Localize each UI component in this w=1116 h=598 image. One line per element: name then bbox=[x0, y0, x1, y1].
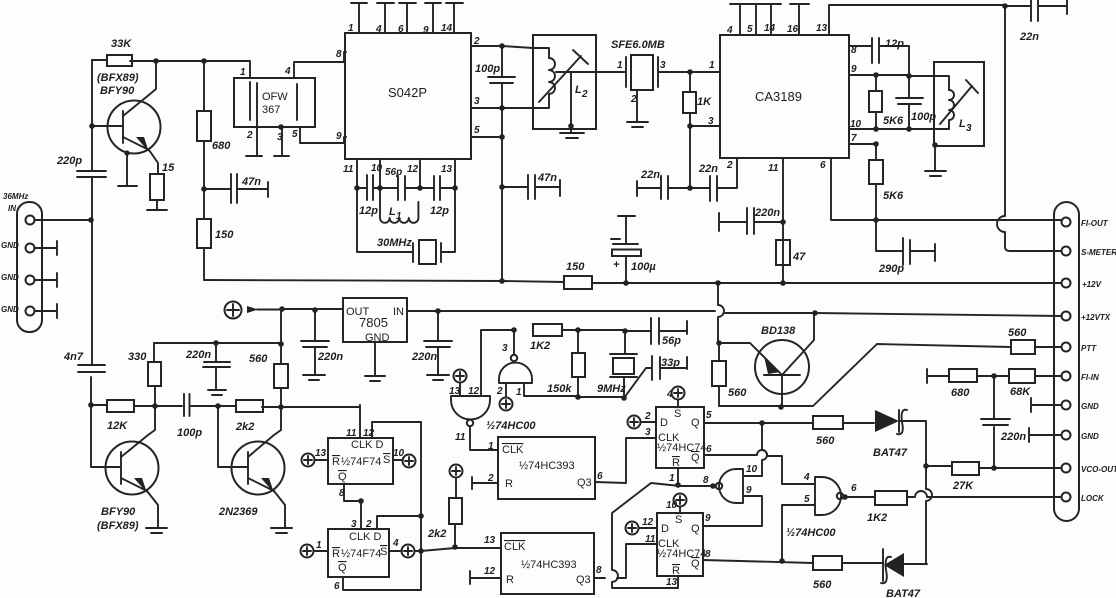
R pin12 stub bbox=[470, 571, 501, 584]
svg-text:680: 680 bbox=[212, 140, 231, 152]
svg-text:VCO-OUT: VCO-OUT bbox=[1081, 465, 1116, 474]
svg-text:100µ: 100µ bbox=[631, 261, 656, 273]
svg-text:16: 16 bbox=[787, 24, 799, 35]
svg-text:12: 12 bbox=[484, 566, 496, 577]
wire x690 down bbox=[689, 126, 691, 188]
svg-text:11: 11 bbox=[768, 163, 779, 174]
ground Q2 bbox=[146, 528, 167, 533]
svg-text:2: 2 bbox=[487, 473, 494, 484]
svg-text:3: 3 bbox=[502, 343, 508, 354]
svg-text:3: 3 bbox=[277, 132, 283, 143]
pin8 Qbar wire bbox=[703, 560, 813, 563]
svg-text:13: 13 bbox=[666, 577, 678, 588]
node top rail bbox=[1002, 3, 1008, 9]
svg-text:150: 150 bbox=[566, 261, 585, 273]
svg-text:47n: 47n bbox=[241, 176, 261, 188]
svg-text:FI-IN: FI-IN bbox=[1081, 373, 1099, 382]
wire pin12 up to 1K2 rail bbox=[481, 330, 514, 396]
svg-text:6: 6 bbox=[334, 581, 340, 592]
svg-text:L: L bbox=[575, 84, 582, 96]
resistor 560 bbox=[712, 343, 747, 406]
svg-text:36MHz: 36MHz bbox=[3, 192, 28, 201]
svg-text:½74HC00: ½74HC00 bbox=[486, 420, 536, 432]
wire base line to PTT diagonal bbox=[719, 344, 1011, 406]
svg-text:4: 4 bbox=[726, 25, 733, 36]
svg-text:(BFX89): (BFX89) bbox=[97, 520, 139, 532]
pin1 R wire bbox=[677, 468, 679, 485]
CA3189 top pin 4 + ground bbox=[730, 4, 750, 35]
svg-text:33p: 33p bbox=[661, 357, 680, 369]
svg-text:2: 2 bbox=[365, 519, 372, 530]
CA3189 pin8 + capacitor 12p bbox=[849, 38, 909, 76]
svg-text:S: S bbox=[383, 454, 390, 466]
svg-text:2: 2 bbox=[473, 36, 480, 47]
svg-text:4: 4 bbox=[284, 66, 291, 77]
svg-text:560: 560 bbox=[1008, 327, 1027, 339]
ground Q1 bbox=[118, 185, 137, 187]
svg-text:13: 13 bbox=[315, 448, 327, 459]
ground OFW pin2 bbox=[246, 155, 262, 157]
svg-text:5: 5 bbox=[474, 125, 480, 136]
svg-text:BD138: BD138 bbox=[761, 325, 796, 337]
capacitor 100p bbox=[475, 46, 515, 108]
CA3189 pin7 wire bbox=[849, 143, 876, 145]
svg-text:GND: GND bbox=[365, 332, 390, 344]
resistor 5K6 bbox=[869, 144, 904, 220]
ground Q3 bbox=[271, 528, 292, 533]
resistor 330 bbox=[128, 343, 161, 405]
wire to 7805 bbox=[282, 308, 343, 310]
svg-text:+: + bbox=[613, 259, 620, 271]
svg-text:GND: GND bbox=[1, 273, 19, 282]
pin 4 S with pullup to CLK net bbox=[389, 538, 501, 558]
pin5 Q wire bbox=[704, 422, 813, 424]
svg-text:10: 10 bbox=[666, 500, 678, 511]
node 4n7/12K bbox=[88, 402, 94, 408]
svg-text:CLK: CLK bbox=[502, 444, 524, 456]
wire 560 chain bbox=[280, 309, 282, 408]
svg-text:56p: 56p bbox=[662, 335, 681, 347]
svg-text:FI-OUT: FI-OUT bbox=[1081, 219, 1109, 228]
svg-text:BAT47: BAT47 bbox=[886, 588, 921, 598]
svg-text:S: S bbox=[380, 546, 387, 558]
gate U4d NAND right-facing bbox=[786, 477, 857, 539]
svg-text:9: 9 bbox=[746, 485, 752, 496]
svg-text:13: 13 bbox=[449, 386, 461, 397]
node 680 top bbox=[201, 58, 207, 64]
svg-text:½74F74: ½74F74 bbox=[341, 548, 381, 560]
svg-text:Q: Q bbox=[691, 452, 700, 464]
resistor 560 PTT bbox=[1008, 327, 1061, 354]
svg-text:Q3: Q3 bbox=[576, 574, 591, 586]
svg-text:27K: 27K bbox=[952, 480, 974, 492]
svg-text:220n: 220n bbox=[754, 207, 780, 219]
svg-text:+12V: +12V bbox=[1082, 280, 1102, 289]
resistor 5K6 bbox=[869, 75, 904, 129]
resistor 1K bbox=[683, 72, 712, 126]
svg-text:PTT: PTT bbox=[1081, 344, 1097, 353]
svg-text:10: 10 bbox=[371, 163, 383, 174]
resistor 150k bbox=[547, 330, 585, 397]
resistor 150 bbox=[197, 189, 234, 280]
pin 8 Q to pin3 below bbox=[344, 484, 361, 529]
svg-text:(BFX89): (BFX89) bbox=[97, 72, 139, 84]
diode BAT47 lower bbox=[881, 549, 927, 598]
capacitor 12p (pin12-13) bbox=[420, 176, 455, 217]
capacitor 220n stub bbox=[719, 207, 783, 234]
S042P top pin 4 + ground bbox=[377, 3, 394, 33]
svg-text:5: 5 bbox=[292, 129, 298, 140]
wire x91 vertical chain bbox=[91, 60, 92, 405]
svg-text:CLK: CLK bbox=[504, 541, 526, 553]
svg-text:1: 1 bbox=[348, 23, 354, 34]
ground OFW pin3 bbox=[274, 155, 289, 157]
filter OFW367 bbox=[234, 52, 346, 155]
svg-text:2: 2 bbox=[644, 411, 651, 422]
svg-text:L: L bbox=[389, 206, 396, 218]
CA3189 top pin 5 + ground bbox=[747, 4, 766, 35]
svg-text:½74HC00: ½74HC00 bbox=[786, 527, 836, 539]
S042P pin3 wire bbox=[471, 107, 533, 109]
resistor 560 TX1 bbox=[813, 416, 874, 447]
R pin2 stub bbox=[472, 477, 498, 489]
svg-text:1: 1 bbox=[709, 60, 715, 71]
S042P top pin 1 + ground bbox=[351, 3, 367, 33]
S042P top pin 14 + ground bbox=[446, 3, 463, 33]
svg-text:1K: 1K bbox=[697, 96, 712, 108]
svg-text:GND: GND bbox=[1, 305, 19, 314]
Q3 pin8 wire to U6b CLK bbox=[594, 544, 657, 578]
gnd stub pin3 bbox=[35, 273, 58, 287]
wire FI-OUT line bbox=[876, 220, 1061, 221]
svg-text:367: 367 bbox=[262, 104, 280, 116]
gate U4c NAND left-facing bbox=[703, 469, 743, 503]
wire pin1 to node bbox=[35, 219, 92, 221]
svg-text:4: 4 bbox=[392, 538, 399, 549]
svg-text:6: 6 bbox=[398, 24, 404, 35]
diode BAT47 upper bbox=[873, 410, 926, 466]
svg-text:Q3: Q3 bbox=[577, 477, 592, 489]
capacitor 22n stub left bbox=[637, 169, 690, 199]
wire y406 line bbox=[91, 405, 360, 438]
capacitor 220n bbox=[981, 376, 1026, 468]
svg-text:2: 2 bbox=[246, 130, 253, 141]
svg-text:R: R bbox=[672, 457, 680, 469]
svg-text:9: 9 bbox=[705, 513, 711, 524]
svg-text:12: 12 bbox=[407, 164, 419, 175]
capacitor 290p stub bbox=[876, 220, 935, 275]
ground 7805 bbox=[365, 342, 385, 381]
svg-text:13: 13 bbox=[441, 164, 453, 175]
svg-text:IN: IN bbox=[8, 204, 16, 213]
Q3 pin6 wire to U6a CLK bbox=[595, 438, 656, 483]
pin 2 D wire bbox=[377, 516, 421, 529]
svg-text:47: 47 bbox=[792, 251, 806, 263]
CA3189 pin6 wire to FI-OUT bbox=[831, 158, 876, 220]
svg-text:11: 11 bbox=[645, 534, 656, 545]
svg-text:13: 13 bbox=[816, 23, 828, 34]
CA3189 pin13 wire to top rail bbox=[829, 5, 1005, 35]
input 9 wire bbox=[704, 496, 762, 526]
capacitor 220n to ground bbox=[185, 343, 230, 389]
wire bus to BD138 with hop bbox=[718, 283, 724, 343]
ground L2 bbox=[560, 133, 584, 138]
svg-text:GND: GND bbox=[1081, 402, 1099, 411]
S042P bottom pins 11 10 12 13 bbox=[357, 159, 455, 188]
wire pin3 CA3189 bbox=[690, 125, 720, 127]
svg-text:1K2: 1K2 bbox=[530, 340, 550, 352]
capacitor 100p bbox=[896, 76, 936, 129]
svg-text:14: 14 bbox=[764, 23, 776, 34]
svg-text:100p: 100p bbox=[475, 63, 500, 75]
svg-text:CLK D: CLK D bbox=[351, 439, 383, 451]
gnd stub pin GND1 bbox=[1031, 398, 1061, 412]
node 7805 out arrow bbox=[225, 302, 283, 319]
svg-text:2: 2 bbox=[726, 160, 733, 171]
svg-text:330: 330 bbox=[128, 351, 147, 363]
transistor Q1 BFY90 bbox=[92, 61, 161, 185]
svg-text:8: 8 bbox=[596, 565, 602, 576]
resistor 680 bbox=[197, 61, 231, 189]
ground 15 bbox=[147, 200, 167, 210]
svg-text:1: 1 bbox=[316, 540, 322, 551]
flip-flop U3b 74F74 lower bbox=[328, 529, 389, 577]
svg-text:BFY90: BFY90 bbox=[100, 85, 135, 97]
capacitor 47n stub bbox=[204, 174, 268, 203]
ground 220n bbox=[208, 390, 226, 395]
svg-text:22n: 22n bbox=[1019, 31, 1039, 43]
svg-text:11: 11 bbox=[455, 432, 466, 443]
svg-text:15: 15 bbox=[162, 162, 175, 174]
wire y343 VFO supply bbox=[154, 342, 281, 344]
pin2 D pullup bbox=[628, 411, 657, 429]
svg-text:5K6: 5K6 bbox=[883, 115, 904, 127]
svg-text:220n: 220n bbox=[411, 351, 437, 363]
svg-text:12p: 12p bbox=[430, 205, 449, 217]
svg-text:9: 9 bbox=[851, 64, 857, 75]
capacitor 220n at 7805 out bbox=[301, 310, 343, 374]
svg-text:10: 10 bbox=[393, 448, 405, 459]
resistor 680 stub bbox=[927, 369, 994, 399]
svg-text:13: 13 bbox=[484, 535, 496, 546]
svg-text:4: 4 bbox=[803, 472, 810, 483]
svg-text:7805: 7805 bbox=[359, 315, 388, 330]
svg-text:1: 1 bbox=[669, 473, 675, 484]
svg-text:2: 2 bbox=[630, 94, 637, 105]
output 8 net to both R pins bbox=[612, 483, 716, 588]
svg-text:100p: 100p bbox=[177, 427, 202, 439]
wire NAND out to HC393 CLK bbox=[470, 427, 498, 451]
wire x502 vertical bbox=[501, 108, 503, 281]
gnd stub pin4 bbox=[35, 304, 58, 318]
crystal 30MHz bbox=[357, 188, 455, 264]
svg-text:4: 4 bbox=[666, 389, 673, 400]
wire pin1 to 150k net bbox=[524, 383, 578, 396]
CA3189 pin9 wire bbox=[849, 74, 909, 76]
svg-text:11: 11 bbox=[346, 428, 357, 439]
svg-text:1K2: 1K2 bbox=[867, 512, 887, 524]
crystal 9MHz bbox=[597, 331, 637, 398]
svg-text:68K: 68K bbox=[1010, 386, 1031, 398]
svg-text:D: D bbox=[661, 523, 669, 535]
S042P top pin 6 + ground bbox=[399, 3, 416, 33]
pin 6 Q feedback wire bbox=[343, 422, 421, 590]
svg-text:5: 5 bbox=[804, 494, 810, 505]
svg-text:6: 6 bbox=[597, 471, 603, 482]
svg-text:560: 560 bbox=[816, 435, 835, 447]
svg-text:LOCK: LOCK bbox=[1081, 494, 1105, 503]
CA3189 pin11 wire bbox=[782, 158, 784, 240]
pin 1 R with pullup bbox=[301, 540, 329, 558]
svg-text:2: 2 bbox=[496, 386, 503, 397]
svg-text:6: 6 bbox=[706, 444, 712, 455]
svg-text:BFY90: BFY90 bbox=[101, 506, 136, 518]
resistor 560 bbox=[249, 353, 288, 388]
capacitor 100u electrolytic bbox=[611, 216, 656, 283]
resistor 47 bbox=[776, 240, 806, 283]
svg-text:3: 3 bbox=[660, 60, 666, 71]
ground L3 bbox=[925, 171, 946, 176]
node 47n bbox=[201, 186, 207, 192]
svg-text:BAT47: BAT47 bbox=[873, 447, 908, 459]
svg-text:GND: GND bbox=[1081, 432, 1099, 441]
svg-text:D: D bbox=[660, 417, 668, 429]
svg-text:Q: Q bbox=[691, 523, 700, 535]
svg-text:2: 2 bbox=[581, 89, 588, 100]
pin12 D pullup bbox=[626, 517, 658, 535]
IC S042P bbox=[345, 33, 471, 159]
svg-text:12: 12 bbox=[642, 517, 654, 528]
svg-text:9: 9 bbox=[336, 131, 342, 142]
IC CA3189 bbox=[720, 35, 849, 158]
svg-text:CLK D: CLK D bbox=[349, 531, 381, 543]
svg-text:2N2369: 2N2369 bbox=[218, 506, 258, 518]
svg-text:33K: 33K bbox=[111, 38, 132, 50]
svg-text:SFE6.0MB: SFE6.0MB bbox=[611, 39, 665, 51]
svg-text:220n: 220n bbox=[185, 349, 211, 361]
svg-text:8: 8 bbox=[851, 45, 857, 56]
transistor Q3 2N2369 bbox=[218, 406, 285, 527]
svg-text:Q: Q bbox=[338, 562, 347, 574]
svg-text:3: 3 bbox=[966, 123, 972, 134]
svg-text:11: 11 bbox=[343, 164, 354, 175]
resistor 12K bbox=[107, 400, 134, 432]
pin10 S pullup bbox=[666, 494, 687, 514]
resistor 1K2 to LOCK bbox=[845, 491, 1061, 524]
svg-text:Q: Q bbox=[691, 558, 700, 570]
svg-text:4: 4 bbox=[375, 24, 382, 35]
svg-text:R: R bbox=[506, 574, 514, 586]
svg-text:10: 10 bbox=[850, 119, 862, 130]
svg-text:5: 5 bbox=[747, 24, 753, 35]
tuned circuit L2 bbox=[533, 35, 596, 132]
svg-text:1: 1 bbox=[516, 387, 522, 398]
svg-text:GND: GND bbox=[1, 241, 19, 250]
svg-text:2k2: 2k2 bbox=[427, 528, 446, 540]
svg-text:½74HC393: ½74HC393 bbox=[519, 460, 575, 472]
svg-text:30MHz: 30MHz bbox=[377, 237, 412, 249]
flip-flop U6b 74HC74 lower bbox=[657, 513, 707, 577]
node collector Q1 bbox=[153, 58, 159, 64]
resistor 560 TX2 bbox=[813, 556, 882, 591]
svg-text:1: 1 bbox=[240, 67, 246, 78]
resistor 2K2 bbox=[235, 400, 263, 433]
svg-text:22n: 22n bbox=[640, 169, 660, 181]
transistor Q4 BD138 bbox=[719, 313, 814, 407]
capacitor 22n top right bbox=[1005, 0, 1067, 43]
svg-text:150: 150 bbox=[215, 229, 234, 241]
svg-text:9: 9 bbox=[423, 25, 429, 36]
svg-text:220p: 220p bbox=[56, 155, 82, 167]
filter SFE6.0MB bbox=[596, 39, 690, 121]
svg-text:100p: 100p bbox=[911, 111, 936, 123]
svg-text:5: 5 bbox=[706, 410, 712, 421]
transistor Q2 BFY90 bbox=[91, 405, 159, 532]
resistor 15 bbox=[150, 162, 175, 200]
resistor 2k2 pullup bbox=[427, 465, 463, 548]
svg-text:½74HC393: ½74HC393 bbox=[521, 559, 577, 571]
regulator 7805 bbox=[343, 298, 407, 344]
svg-text:12: 12 bbox=[363, 428, 375, 439]
resistor 150 bbox=[564, 261, 592, 289]
svg-text:Q: Q bbox=[691, 417, 700, 429]
svg-text:8: 8 bbox=[703, 475, 709, 486]
pin9 Q wire bbox=[703, 525, 742, 527]
svg-text:12: 12 bbox=[468, 386, 480, 397]
svg-text:IN: IN bbox=[393, 306, 404, 318]
pin 10 S with pullup bbox=[393, 448, 416, 468]
svg-text:8: 8 bbox=[339, 488, 345, 499]
wire top rail y62 bbox=[92, 60, 250, 61]
svg-text:3: 3 bbox=[474, 96, 480, 107]
node 36MHz in bbox=[88, 217, 94, 223]
pin 12 D wire bbox=[372, 422, 421, 438]
S042P top pin 9 + ground bbox=[425, 3, 441, 33]
svg-text:560: 560 bbox=[813, 579, 832, 591]
svg-text:S: S bbox=[675, 514, 682, 526]
CA3189 pin10 wire bbox=[849, 128, 949, 130]
wire x1006 down to S-METER with hop bbox=[997, 6, 1061, 251]
svg-text:14: 14 bbox=[441, 23, 453, 34]
svg-text:8: 8 bbox=[336, 49, 342, 60]
gate U4a NAND 74HC00 bbox=[449, 386, 536, 443]
svg-text:1: 1 bbox=[488, 441, 494, 452]
gate U4b NAND 74HC00 bbox=[496, 330, 532, 398]
connector J2 bbox=[1054, 202, 1116, 521]
svg-text:½74F74: ½74F74 bbox=[341, 456, 381, 468]
capacitor 100p bbox=[177, 394, 202, 439]
svg-text:R: R bbox=[505, 478, 513, 490]
svg-text:3: 3 bbox=[708, 116, 714, 127]
ground 220n bbox=[427, 375, 449, 380]
resistor 27K bbox=[926, 462, 1061, 492]
capacitor 33p stub bbox=[624, 356, 687, 398]
svg-text:S042P: S042P bbox=[388, 85, 427, 100]
pin4 S pullup bbox=[666, 387, 685, 408]
capacitor 56p (pin10-12) bbox=[380, 176, 420, 200]
svg-text:4n7: 4n7 bbox=[63, 351, 84, 363]
svg-text:CA3189: CA3189 bbox=[755, 89, 802, 104]
svg-text:3: 3 bbox=[645, 427, 651, 438]
CA3189 top pin 16 + ground bbox=[790, 4, 809, 35]
capacitor 22n to pin2 bbox=[690, 159, 737, 201]
svg-text:47n: 47n bbox=[537, 172, 557, 184]
inductor L1 bbox=[380, 188, 418, 223]
svg-text:10: 10 bbox=[746, 464, 758, 475]
svg-text:560: 560 bbox=[249, 353, 268, 365]
S042P pin2 wire bbox=[471, 46, 533, 48]
capacitor 220n at 7805 in bbox=[411, 311, 452, 374]
